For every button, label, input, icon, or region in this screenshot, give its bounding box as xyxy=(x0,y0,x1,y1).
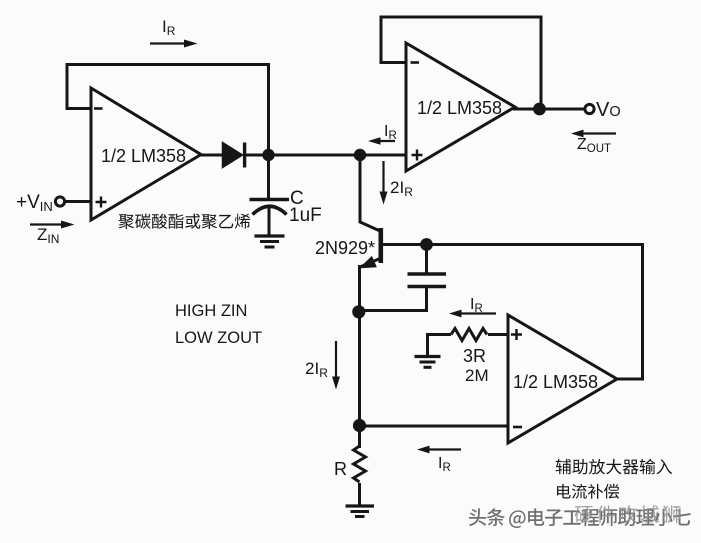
op-amp U3 1/2 LM358 xyxy=(508,315,617,443)
node B op2 plus input junction xyxy=(354,149,366,161)
label auxiliary-amplifier-input (Chinese) xyxy=(556,459,672,475)
wire base node down to capacitor C2 top xyxy=(425,245,428,274)
wire resistor R bottom to ground xyxy=(358,483,361,505)
wire transistor base to node xyxy=(382,243,427,246)
svg-text:1/2 LM358: 1/2 LM358 xyxy=(101,146,186,166)
node C op2 output junction xyxy=(533,103,546,116)
arrow impedance Zout xyxy=(571,130,616,155)
ground left of resistor 3R xyxy=(415,357,441,368)
arrow current IR into 3R xyxy=(449,296,496,317)
svg-text:1/2 LM358: 1/2 LM358 xyxy=(417,98,502,118)
wire resistor 3R left lead to ground corner xyxy=(428,335,452,356)
wire op1 feedback loop from minus input up over to diode node xyxy=(67,65,269,151)
capacitor C2 xyxy=(408,274,447,287)
terminal Vo xyxy=(585,99,621,121)
resistor R xyxy=(334,446,366,482)
wire diode cathode through node to op2 plus input xyxy=(244,154,406,157)
ground below resistor R xyxy=(346,506,375,517)
wire op2 feedback loop from minus input up over to output node xyxy=(381,17,541,105)
node D transistor base node xyxy=(420,238,433,251)
wire node to capacitor C top xyxy=(267,155,270,198)
watermark 头条@电子工程师助理小七 xyxy=(469,508,692,529)
arrow current IR at op2 plus input xyxy=(368,123,397,145)
svg-text:1/2 LM358: 1/2 LM358 xyxy=(513,372,598,392)
arrow impedance Zin xyxy=(30,221,75,247)
node F op3 minus input junction xyxy=(353,419,366,432)
wire capacitor C bottom to ground xyxy=(268,207,271,235)
arrow current 2IR through lower wire xyxy=(305,341,340,390)
wire capacitor C2 bottom left to emitter junction xyxy=(361,287,427,311)
label polycarbonate-or-polyethylene (Chinese) xyxy=(119,214,251,229)
watermark ghost 硬件攻城狮 xyxy=(575,505,681,523)
svg-text:3R: 3R xyxy=(463,346,486,366)
transistor Q1 2N929 xyxy=(315,228,381,267)
resistor 3R 2M xyxy=(451,329,489,386)
wire junction down to transistor collector xyxy=(360,155,379,231)
op-amp U1 1/2 LM358 xyxy=(91,88,201,220)
svg-text:2M: 2M xyxy=(465,366,489,385)
wire transistor emitter down through junctions to op3 minus level xyxy=(358,265,361,448)
op-amp U2 1/2 LM358 xyxy=(406,43,515,171)
ground below capacitor C xyxy=(255,236,285,247)
svg-text:2N929*: 2N929* xyxy=(315,238,375,258)
terminal +Vin xyxy=(16,192,65,214)
arrow current IR top left xyxy=(150,17,198,48)
wire resistor 3R right lead to op3 plus input xyxy=(488,333,508,336)
arrow current IR at op3 minus wire xyxy=(417,446,461,474)
diode D1 xyxy=(223,143,245,168)
capacitor C 1uF xyxy=(250,188,322,226)
label current-compensation (Chinese) xyxy=(557,484,619,499)
wire lower junction to op3 minus input xyxy=(360,425,509,428)
wire op2 output to Vo terminal xyxy=(513,108,585,111)
svg-text:R: R xyxy=(334,459,347,479)
wire op1 output to diode anode xyxy=(200,154,225,157)
node A diode output junction xyxy=(262,149,274,161)
node E emitter capacitor junction xyxy=(352,305,365,318)
wire base node right and down to op3 output xyxy=(427,245,643,380)
svg-text:LOW ZOUT: LOW ZOUT xyxy=(175,329,262,347)
wire +Vin input to op1 plus input xyxy=(64,200,91,203)
svg-text:1uF: 1uF xyxy=(289,205,322,226)
svg-text:HIGH ZIN: HIGH ZIN xyxy=(175,302,247,320)
arrow current 2IR into transistor collector xyxy=(380,161,414,205)
